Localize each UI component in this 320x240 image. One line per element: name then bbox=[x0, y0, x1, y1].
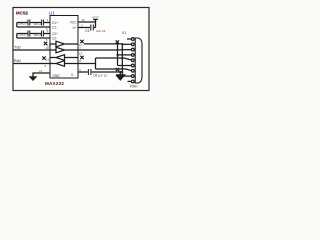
junction dot ground bbox=[119, 71, 121, 73]
svg-text:V+: V+ bbox=[73, 26, 77, 30]
no-connect cross bus A lower bbox=[116, 68, 119, 71]
capacitor C6 plates bbox=[88, 69, 91, 75]
svg-text:1uF 16: 1uF 16 bbox=[98, 73, 108, 77]
svg-text:GND: GND bbox=[53, 74, 61, 78]
svg-text:RxD: RxD bbox=[14, 59, 21, 63]
svg-text:C1-: C1- bbox=[52, 25, 57, 29]
svg-text:VCC: VCC bbox=[70, 21, 77, 25]
IC U1 MAX232 body bbox=[50, 16, 78, 79]
svg-text:12: 12 bbox=[46, 57, 50, 61]
capacitor C2 plates bbox=[28, 31, 30, 37]
ground symbol left bbox=[29, 77, 37, 81]
wire branch to X1 pin7 bbox=[96, 69, 133, 71]
bus wire A bbox=[117, 42, 119, 66]
wire X1 pin6 stub bbox=[118, 65, 133, 67]
wire X1 pin8 stub bbox=[122, 75, 132, 77]
wire VCC bbox=[78, 22, 96, 28]
wire V+ bbox=[78, 27, 96, 29]
wire X1 pin2 stub bbox=[122, 43, 132, 45]
X1 pin circles bbox=[131, 38, 134, 83]
capacitor C2b plates bbox=[42, 31, 44, 37]
svg-text:U1: U1 bbox=[49, 11, 55, 16]
svg-text:C2: C2 bbox=[22, 33, 26, 37]
wire X1 pin9 stub bbox=[128, 80, 133, 82]
wire C2- bbox=[17, 34, 50, 39]
no-connect cross T1OUT bbox=[80, 40, 83, 43]
svg-text:V-: V- bbox=[71, 73, 74, 77]
VCC power symbol bbox=[93, 20, 97, 23]
wire TxD bbox=[14, 49, 50, 51]
junction dot pin4 bbox=[116, 54, 118, 56]
capacitor C1 group: wire C1+ bbox=[17, 22, 50, 24]
capacitor C4 plates bbox=[91, 25, 94, 31]
svg-text:F09H: F09H bbox=[130, 84, 138, 88]
svg-text:C1+: C1+ bbox=[52, 21, 58, 25]
connector X1 body bbox=[135, 38, 142, 83]
svg-text:C1: C1 bbox=[22, 22, 26, 26]
capacitor C1b plates bbox=[42, 20, 44, 26]
receiver R2 triangle bbox=[50, 61, 78, 67]
wire GND pin bbox=[33, 73, 50, 77]
no-connect cross T1IN bbox=[44, 42, 47, 45]
no-connect cross R1IN bbox=[80, 56, 83, 59]
svg-text:C2+: C2+ bbox=[52, 32, 58, 36]
wire RxD bbox=[14, 63, 50, 65]
wire T1OUT to X1 pin2 bbox=[84, 43, 122, 45]
svg-text:1uF 16: 1uF 16 bbox=[96, 29, 106, 33]
svg-text:C2-: C2- bbox=[52, 36, 57, 40]
no-connect cross bus A top bbox=[116, 40, 119, 43]
svg-text:MCS2: MCS2 bbox=[16, 11, 29, 16]
driver T1 triangle bbox=[50, 41, 78, 47]
svg-text:VCC: VCC bbox=[92, 15, 99, 19]
junction dot pin2 bbox=[121, 43, 123, 45]
bus wire B bbox=[121, 44, 123, 76]
svg-text:TxD: TxD bbox=[14, 46, 21, 50]
driver T2 triangle bbox=[50, 47, 78, 53]
wire X1 pin4 stub bbox=[118, 54, 133, 56]
wire branch to X1 pin5 bbox=[96, 58, 133, 60]
no-connect cross R1OUT bbox=[42, 56, 45, 59]
svg-text:16: 16 bbox=[82, 18, 86, 22]
junction dot bus B ground bbox=[121, 71, 123, 73]
receiver R1 triangle bbox=[50, 55, 78, 61]
svg-text:MAX232: MAX232 bbox=[45, 81, 64, 86]
svg-text:10: 10 bbox=[46, 46, 50, 50]
wire C1- bbox=[17, 23, 50, 28]
svg-text:13: 13 bbox=[79, 51, 83, 55]
svg-text:C3: C3 bbox=[37, 22, 41, 26]
wire V- bbox=[78, 71, 120, 73]
wire X1 pin1 stub bbox=[127, 38, 132, 40]
ground symbol right bbox=[116, 72, 125, 80]
capacitor C2 group: wire C2+ bbox=[17, 33, 50, 35]
svg-text:C4: C4 bbox=[37, 33, 41, 37]
capacitor C1 plates bbox=[28, 20, 30, 26]
svg-text:C5: C5 bbox=[85, 29, 89, 33]
junction dot pin5 branch bbox=[121, 57, 123, 59]
wire T2OUT to X1 pin3 bbox=[78, 49, 132, 51]
wire R2IN bbox=[78, 58, 96, 69]
schematic frame bbox=[13, 8, 149, 91]
svg-text:X1: X1 bbox=[122, 31, 126, 35]
